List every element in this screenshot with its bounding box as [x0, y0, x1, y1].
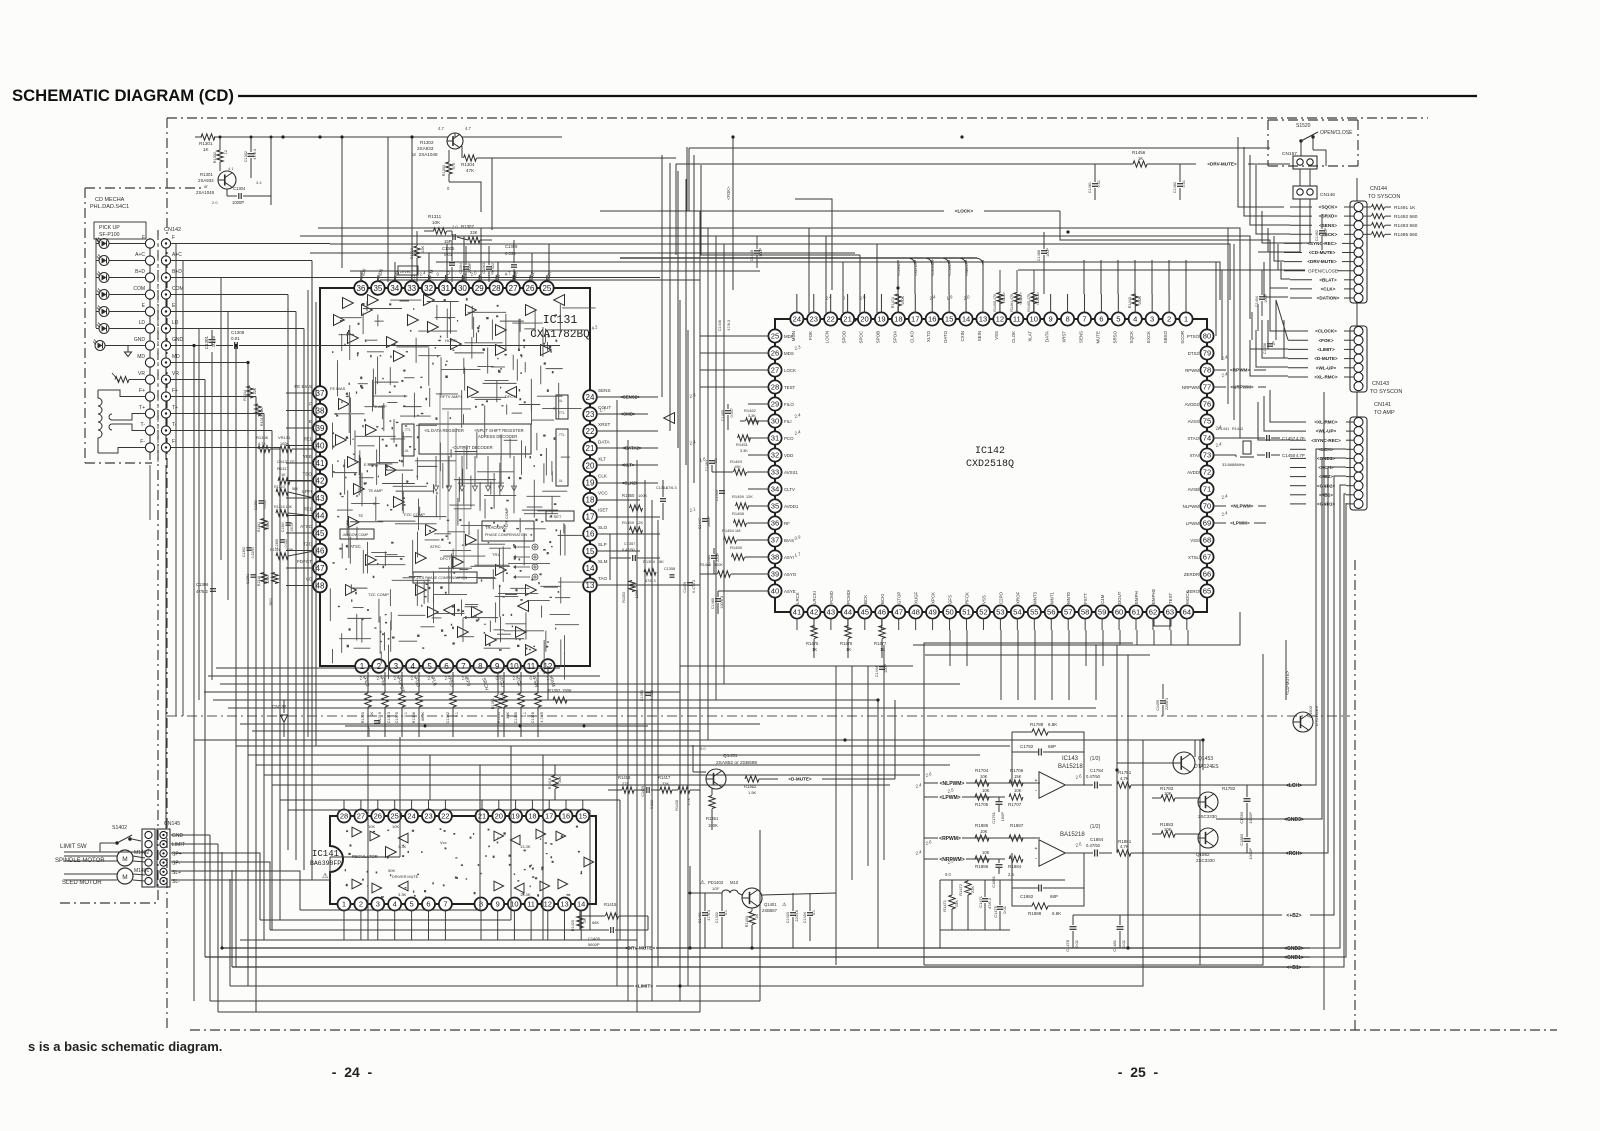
svg-text:0.01: 0.01	[1074, 939, 1079, 948]
IC131 TM cluster	[516, 546, 530, 548]
long vertical right x1324	[1323, 392, 1325, 1010]
svg-text:TO SYSCON: TO SYSCON	[1370, 389, 1402, 395]
svg-text:SPOA: SPOA	[892, 331, 897, 343]
IC131 internal amp 33	[366, 425, 377, 436]
bottom long rails	[222, 947, 630, 949]
capacitor C1450	[1266, 452, 1268, 458]
svg-text:R1417: R1417	[658, 775, 671, 780]
svg-text:R1318: R1318	[257, 576, 261, 586]
svg-text:1000P: 1000P	[232, 200, 244, 205]
connector CN144 pin 1 SQCK	[1354, 203, 1363, 212]
svg-text:CLKO: CLKO	[909, 330, 914, 343]
svg-text:R1316: R1316	[270, 548, 281, 552]
resistor R1453	[734, 469, 747, 475]
svg-text:77: 77	[1203, 383, 1211, 392]
svg-text:3.3K: 3.3K	[398, 892, 407, 897]
IC142 pin 76	[1200, 397, 1213, 410]
connector CN142 pin T+	[145, 409, 154, 418]
capacitor C1444	[879, 666, 885, 668]
svg-text:C1882: C1882	[1020, 894, 1034, 899]
svg-text:15P: 15P	[444, 239, 452, 244]
svg-text:1: 1	[360, 662, 365, 671]
svg-text:<NLPWM>: <NLPWM>	[1231, 504, 1254, 509]
svg-text:CN142: CN142	[164, 227, 181, 233]
svg-text:-TTL: -TTL	[558, 433, 565, 437]
IC131 internal amp 35	[386, 465, 397, 476]
serial fan to IC142 pins	[620, 257, 977, 259]
svg-text:<RPWM>: <RPWM>	[939, 836, 961, 842]
svg-text:33: 33	[407, 284, 416, 293]
svg-text:<CLOCK>: <CLOCK>	[1315, 329, 1337, 334]
svg-text:39: 39	[316, 424, 325, 433]
wire R141x row	[1202, 740, 1204, 770]
IC142 pin 14	[959, 312, 972, 325]
IC131 pin 36	[354, 281, 368, 295]
svg-text:<CLK>: <CLK>	[1321, 287, 1336, 292]
svg-text:XTSL: XTSL	[1188, 555, 1200, 560]
svg-text:SLO: SLO	[598, 525, 608, 530]
IC142 pin 58	[1079, 605, 1092, 618]
IC141 pin 23	[422, 810, 435, 823]
svg-text:44: 44	[316, 511, 325, 520]
IC131 internal amp 3	[408, 315, 419, 326]
svg-text:<DATION>: <DATION>	[1317, 296, 1340, 301]
connector CN144 body	[1350, 201, 1367, 303]
photodiode D1	[99, 239, 109, 249]
svg-text:51: 51	[962, 608, 970, 617]
amp inner vertical	[1199, 740, 1201, 965]
IC142 pin 25	[768, 329, 781, 342]
IC131 internal amp 5	[387, 337, 398, 348]
svg-text:OPEN/CLOSE: OPEN/CLOSE	[1320, 130, 1353, 136]
svg-text:25: 25	[542, 284, 551, 293]
IC131 pin 6	[440, 659, 454, 673]
op-amp IC143 A	[1039, 772, 1065, 798]
IC131 pin 28	[489, 281, 503, 295]
resistor R1359 12K	[630, 527, 643, 533]
svg-text:AVDD2: AVDD2	[1185, 402, 1200, 407]
svg-text:0.01: 0.01	[1182, 180, 1186, 187]
svg-text:C1404: C1404	[803, 912, 807, 923]
svg-text:C1475: C1475	[993, 905, 998, 918]
svg-text:<RCH>: <RCH>	[1286, 851, 1303, 857]
svg-text:GTOP: GTOP	[897, 592, 902, 604]
IC131 pin 24	[583, 390, 597, 404]
IC142 pin 42	[807, 605, 820, 618]
capacitor C1363	[486, 266, 492, 268]
resistor R1707	[1009, 794, 1023, 800]
IC142 pin 55	[1028, 605, 1041, 618]
svg-text:<+B2>: <+B2>	[1286, 913, 1301, 919]
svg-text:MDS: MDS	[784, 351, 794, 356]
svg-text:SCOR: SCOR	[1180, 331, 1185, 344]
svg-text:SCHEMATIC DIAGRAM (CD): SCHEMATIC DIAGRAM (CD)	[12, 87, 234, 105]
svg-text:C1353: C1353	[254, 500, 258, 510]
svg-text:68P: 68P	[1048, 744, 1056, 749]
IC131 internal amp 34	[336, 435, 347, 446]
svg-text:36K: 36K	[558, 776, 562, 783]
svg-text:C1459: C1459	[1156, 700, 1160, 711]
wire top cluster	[195, 136, 202, 138]
svg-text:LD: LD	[139, 320, 146, 326]
svg-text:R1888: R1888	[1028, 911, 1042, 916]
svg-text:4.7K: 4.7K	[1120, 844, 1129, 849]
svg-text:10: 10	[510, 662, 519, 671]
svg-text:C1309: C1309	[231, 330, 245, 335]
resistor R1351 68K	[495, 696, 501, 709]
IC131 internal amp 19	[516, 627, 527, 638]
transistor Q1782	[1198, 792, 1218, 812]
svg-text:<SEIN>: <SEIN>	[965, 262, 969, 276]
svg-text:R1303: R1303	[442, 165, 446, 176]
svg-text:10K: 10K	[982, 788, 990, 793]
connector CN145 body	[142, 829, 155, 887]
svg-text:C1405: C1405	[588, 936, 601, 941]
svg-text:FE BIAS: FE BIAS	[294, 384, 312, 389]
svg-text:SENS: SENS	[1078, 331, 1083, 343]
svg-text:C4M: C4M	[1100, 594, 1105, 604]
IC142 pin 65	[1200, 584, 1213, 597]
IC131 pin 9	[490, 659, 504, 673]
svg-text:47/6.3: 47/6.3	[253, 149, 257, 160]
connector CN143 pin 7 SL-RMC	[1354, 382, 1363, 391]
svg-text:Vcc: Vcc	[440, 840, 447, 845]
svg-text:<LIMIT>: <LIMIT>	[635, 984, 653, 990]
transistor Q1301	[218, 171, 236, 189]
svg-text:DOUT: DOUT	[1117, 591, 1122, 604]
resistor R1704	[975, 780, 989, 786]
IC142 pin 73	[1200, 448, 1213, 461]
svg-text:<GND1>: <GND1>	[1284, 955, 1304, 961]
svg-text:FILO: FILO	[784, 402, 794, 407]
svg-text:10K: 10K	[734, 465, 741, 469]
FE bias components col	[439, 393, 441, 520]
svg-text:C1446: C1446	[718, 320, 722, 331]
svg-text:47/6.3: 47/6.3	[727, 320, 731, 331]
svg-text:5: 5	[427, 662, 432, 671]
photodiode D4	[99, 290, 109, 300]
svg-text:CN144: CN144	[1370, 186, 1387, 192]
capacitor C1460	[715, 598, 721, 600]
svg-text:R1788: R1788	[1030, 722, 1044, 727]
svg-text:COM: COM	[172, 286, 184, 292]
svg-text:-IIL: -IIL	[404, 449, 409, 453]
svg-text:67: 67	[1203, 553, 1211, 562]
svg-text:80: 80	[1203, 332, 1211, 341]
svg-text:68K: 68K	[592, 920, 599, 925]
feedback capacitor C1882	[1038, 885, 1040, 892]
IC131 pin 22	[583, 424, 597, 438]
svg-text:47: 47	[894, 608, 902, 617]
svg-text:16: 16	[562, 812, 570, 821]
svg-text:C1884: C1884	[1090, 837, 1104, 842]
svg-text:FOK: FOK	[808, 331, 813, 340]
IC131 internal amp 38	[496, 565, 507, 576]
svg-text:19: 19	[877, 315, 885, 324]
svg-text:C1301: C1301	[204, 336, 209, 350]
IC131 pin 48	[313, 579, 327, 593]
IC142 pin 24	[790, 312, 803, 325]
ground rail under IC131	[345, 725, 648, 727]
svg-text:15: 15	[586, 547, 595, 556]
svg-text:27: 27	[357, 812, 365, 821]
svg-text:MNT3: MNT3	[1032, 591, 1037, 604]
resistors 470 top of IC142	[997, 293, 1003, 304]
svg-text:47/6.3: 47/6.3	[707, 910, 711, 921]
svg-text:R1454 1M: R1454 1M	[722, 528, 740, 533]
IC131 internal amp 41	[366, 555, 377, 566]
IC141 pin 24	[405, 810, 418, 823]
svg-text:1P: 1P	[1272, 341, 1276, 346]
svg-text:R1459: R1459	[732, 494, 745, 499]
svg-text:F: F	[172, 235, 175, 241]
svg-text:DRIVER MUTE: DRIVER MUTE	[392, 875, 419, 879]
svg-text:<D-MUTE>: <D-MUTE>	[788, 777, 812, 782]
svg-text:C1305: C1305	[442, 246, 455, 251]
svg-text:1: 1	[342, 900, 346, 909]
svg-text:3: 3	[394, 662, 399, 671]
C1360 cluster	[286, 522, 291, 524]
svg-text:<CXIN>: <CXIN>	[948, 262, 952, 276]
photodiode D2	[99, 256, 109, 266]
svg-text:C1382: C1382	[446, 712, 450, 723]
IC131 pin 44	[313, 509, 327, 523]
resistor R1456 drv-mute	[1133, 161, 1147, 167]
bottom rail verticals	[221, 852, 223, 948]
svg-text:R1315 10K: R1315 10K	[274, 505, 293, 509]
resistor R1303	[446, 162, 452, 174]
IC131 internal amp 39	[526, 585, 537, 596]
svg-text:ATSC: ATSC	[300, 524, 313, 529]
svg-text:57: 57	[1064, 608, 1072, 617]
svg-text:-INPUT SHIFT REGISTER: -INPUT SHIFT REGISTER	[474, 428, 524, 433]
capacitor C1402	[719, 912, 725, 914]
svg-text:1K: 1K	[846, 647, 851, 652]
ground at GND pin	[127, 346, 129, 353]
svg-text:-WINDOW COMP: -WINDOW COMP	[342, 533, 369, 537]
svg-text:100K: 100K	[1138, 296, 1142, 305]
svg-text:BA6398FP: BA6398FP	[310, 860, 341, 867]
svg-text:R1313 10K: R1313 10K	[260, 407, 264, 426]
svg-text:17: 17	[545, 812, 553, 821]
svg-text:R1354: R1354	[643, 559, 656, 564]
CD mecha dash-dot box	[85, 187, 202, 189]
top bus wire 4	[676, 163, 1000, 165]
svg-text:4.1: 4.1	[228, 166, 234, 171]
svg-text:BCKI: BCKI	[880, 594, 885, 604]
svg-text:<NLPWM>: <NLPWM>	[940, 781, 965, 787]
capacitor C1401	[702, 912, 708, 914]
svg-text:42: 42	[316, 476, 325, 485]
capacitor C1761	[996, 801, 1003, 803]
transistor Q1401	[742, 888, 762, 908]
resistor R1304	[464, 155, 477, 161]
svg-text:IC141: IC141	[312, 849, 339, 859]
svg-text:⚠: ⚠	[782, 902, 787, 908]
svg-text:PHASE COMPENSATION: PHASE COMPENSATION	[485, 533, 527, 537]
svg-text:47: 47	[316, 564, 325, 573]
verticals IC142 bottom to amp	[1116, 645, 1118, 852]
svg-text:R1492 560: R1492 560	[1394, 214, 1418, 220]
svg-text:10K: 10K	[980, 829, 988, 834]
capacitor C1364	[463, 266, 469, 268]
svg-text:XLT: XLT	[598, 456, 606, 461]
IC131 pin 5	[423, 659, 437, 673]
svg-text:R1471: R1471	[942, 899, 947, 912]
svg-text:M: M	[122, 856, 127, 863]
svg-text:22: 22	[441, 812, 449, 821]
connector CN143 pin 4 D-MUTE	[1354, 354, 1363, 363]
svg-text:CXIN: CXIN	[960, 331, 965, 342]
resistor R1311	[434, 228, 447, 234]
svg-text:23: 23	[424, 812, 432, 821]
svg-text:R1419: R1419	[618, 775, 631, 780]
svg-text:52: 52	[979, 608, 987, 617]
connector CN141 pin 4 LCH	[1354, 445, 1363, 454]
IC142 pin 9	[1044, 312, 1057, 325]
switch S1520 dash-dot box	[1268, 119, 1358, 121]
svg-text:18: 18	[586, 495, 595, 504]
svg-text:VR131: VR131	[278, 435, 291, 440]
svg-text:C1782: C1782	[1020, 744, 1034, 749]
IC131 internal amp 15	[428, 607, 439, 618]
svg-text:13: 13	[560, 900, 568, 909]
svg-text:35: 35	[373, 284, 382, 293]
svg-text:XLAT: XLAT	[1028, 331, 1033, 342]
IC142 pin 15	[943, 312, 956, 325]
top bus wire 3	[688, 148, 690, 211]
FOK vertical wire	[732, 137, 734, 290]
svg-text:R1359 12K: R1359 12K	[622, 520, 643, 525]
connector CN144 pin 6 CD-MUTE	[1354, 248, 1363, 257]
IC131 pin 45	[313, 526, 327, 540]
left verticals extended	[193, 740, 195, 1001]
IC142 pin 3	[1146, 312, 1159, 325]
IC142 pin 36	[768, 516, 781, 529]
svg-text:10K: 10K	[392, 824, 399, 829]
resistor R1352	[553, 697, 567, 703]
resistor R1462	[745, 776, 759, 782]
svg-text:+: +	[1035, 846, 1038, 852]
IC142 pin 6	[1095, 312, 1108, 325]
IC142 pin 12	[993, 312, 1006, 325]
svg-text:SPOD: SPOD	[842, 331, 847, 343]
svg-text:21: 21	[586, 444, 595, 453]
svg-text:DFCT: DFCT	[440, 556, 451, 561]
svg-text:XROF: XROF	[1015, 591, 1020, 604]
capacitor C1405	[610, 927, 612, 933]
svg-text:Q1401: Q1401	[764, 902, 777, 907]
IC131 ttl box C	[402, 424, 414, 456]
svg-text:4: 4	[1133, 315, 1137, 324]
svg-text:PCMDI: PCMDI	[846, 590, 851, 604]
svg-text:LD: LD	[172, 320, 179, 326]
svg-text:0.47/6.3: 0.47/6.3	[692, 580, 696, 593]
amp bottom net wires	[940, 879, 1065, 881]
svg-text:7: 7	[1082, 315, 1086, 324]
connector CN142 pin B+D	[145, 273, 154, 282]
svg-text:16: 16	[586, 530, 595, 539]
svg-text:6: 6	[444, 662, 449, 671]
svg-text:R1464 470: R1464 470	[1010, 294, 1014, 312]
serial bus between ICs	[596, 396, 658, 398]
IC131 internal amp 20	[664, 413, 675, 424]
svg-text:-TTL: -TTL	[404, 428, 411, 432]
svg-text:120K: 120K	[635, 589, 639, 598]
svg-text:C1471: C1471	[978, 895, 983, 908]
connector CN142 body lines	[149, 238, 151, 460]
svg-text:<CLKD>: <CLKD>	[897, 261, 901, 276]
svg-text:R1416: R1416	[548, 778, 552, 789]
IC131 internal amp 13	[416, 553, 427, 564]
resistor R1419	[622, 787, 634, 793]
svg-text:1GF: 1GF	[712, 887, 720, 891]
IC131 pin 27	[506, 281, 520, 295]
svg-text:R1301: R1301	[199, 141, 213, 146]
IC142 pin 43	[824, 605, 837, 618]
svg-text:CLK: CLK	[598, 474, 608, 479]
svg-text:0.1: 0.1	[404, 712, 408, 717]
svg-text:70: 70	[1203, 502, 1211, 511]
IC142 pin 32	[768, 448, 781, 461]
connector CN144 pin 7 DRV-MUTE	[1354, 257, 1363, 266]
capacitor C1461	[1092, 183, 1098, 185]
capacitor C1403	[790, 912, 796, 914]
svg-text:2SA933: 2SA933	[198, 178, 214, 183]
svg-text:BA15218: BA15218	[1058, 764, 1083, 770]
resistor R1460 100K	[718, 571, 731, 577]
svg-text:21: 21	[478, 812, 486, 821]
svg-text:14: 14	[962, 315, 970, 324]
svg-text:R1704: R1704	[975, 768, 989, 773]
IC131 internal amp 31	[541, 345, 552, 356]
IC131 pin 21	[583, 442, 597, 456]
svg-text:A+C: A+C	[135, 252, 145, 258]
resistor R1461	[709, 796, 715, 809]
svg-text:VR: VR	[138, 371, 145, 377]
svg-text:R1485 560: R1485 560	[1394, 232, 1418, 238]
capacitor C1305	[449, 262, 455, 264]
svg-text:LPWM: LPWM	[1186, 521, 1200, 526]
IC141 pin 15	[576, 810, 589, 823]
resistor R1454 pm	[724, 537, 737, 543]
capacitor C1459	[687, 582, 693, 584]
CN145 wires to right	[171, 834, 210, 836]
IC142 pin 20	[858, 312, 871, 325]
IC142 pin 57	[1062, 605, 1075, 618]
R1361 cluster	[261, 519, 267, 530]
svg-text:<GND2>: <GND2>	[1284, 946, 1304, 952]
IC142 pin 10	[1027, 312, 1040, 325]
resistor R1452	[746, 418, 759, 424]
svg-text:REGULATOR: REGULATOR	[352, 854, 378, 859]
svg-text:3.3K: 3.3K	[748, 414, 756, 418]
crystal X1451	[1243, 441, 1251, 454]
svg-text:Q1882: Q1882	[1196, 852, 1210, 857]
resistor R1477	[879, 626, 885, 639]
svg-text:LRCKI: LRCKI	[812, 591, 817, 604]
svg-text:C1304: C1304	[233, 186, 246, 191]
svg-text:C1409: C1409	[641, 786, 645, 797]
IC142 top pin stubs	[1185, 294, 1187, 313]
IC142 pin 79	[1200, 346, 1213, 359]
svg-text:0.01: 0.01	[1121, 939, 1126, 948]
svg-text:<WL-UP>: <WL-UP>	[1316, 429, 1337, 434]
svg-text:<XL-RMC>: <XL-RMC>	[1314, 420, 1338, 425]
svg-text:<LIMIT>: <LIMIT>	[1317, 347, 1335, 352]
svg-text:<LCH>: <LCH>	[1286, 783, 1302, 789]
svg-text:2SB887: 2SB887	[762, 908, 778, 913]
